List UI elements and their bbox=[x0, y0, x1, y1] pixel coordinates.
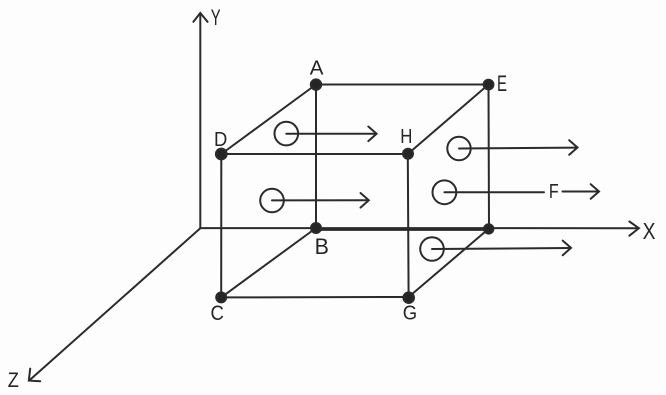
cube edge H-G bbox=[407, 154, 410, 297]
svg-text:Z: Z bbox=[8, 369, 19, 393]
svg-text:G: G bbox=[403, 302, 417, 325]
svg-text:X: X bbox=[643, 218, 656, 244]
svg-text:F: F bbox=[549, 180, 559, 202]
vertex H bbox=[403, 149, 413, 159]
field line 2 (bottom of front face) bbox=[260, 189, 369, 213]
field line 4 (middle, labelled F) bbox=[433, 180, 545, 204]
svg-text:D: D bbox=[214, 129, 227, 151]
svg-text:H: H bbox=[400, 125, 412, 148]
cube edge D-H bbox=[221, 153, 407, 155]
field line 5 (below X axis, right face) bbox=[420, 237, 571, 261]
field line 3 (top of right face) bbox=[447, 137, 577, 160]
X axis bbox=[200, 222, 639, 236]
svg-text:C: C bbox=[211, 302, 224, 326]
vertex G bbox=[403, 292, 414, 303]
Z axis bbox=[29, 228, 201, 381]
cube edge C-G bbox=[221, 296, 408, 298]
svg-text:E: E bbox=[497, 71, 507, 96]
cube edge D-A bbox=[221, 85, 316, 155]
vertex B bbox=[311, 223, 321, 233]
svg-text:B: B bbox=[315, 233, 329, 259]
cube edge D-C bbox=[220, 154, 222, 297]
vertex A bbox=[311, 79, 321, 89]
vertex C bbox=[216, 292, 226, 302]
cube edge C-B bbox=[221, 228, 316, 297]
svg-text:A: A bbox=[310, 56, 324, 79]
cube edge A-E bbox=[316, 84, 489, 86]
svg-text:Y: Y bbox=[211, 6, 221, 31]
cube edge G-F bbox=[409, 229, 489, 298]
cube edge E-F bbox=[488, 85, 491, 229]
cube edge B-F bbox=[316, 229, 489, 231]
cube edge H-E bbox=[408, 85, 489, 155]
Y axis bbox=[193, 13, 207, 228]
vertex E bbox=[484, 80, 494, 90]
field line 1 (top of front face) bbox=[275, 122, 377, 146]
vertex D bbox=[216, 149, 227, 160]
cube edge A-B bbox=[315, 85, 317, 229]
field line 4 arrow after F bbox=[563, 184, 600, 199]
vertex F (on X axis) bbox=[484, 224, 493, 233]
